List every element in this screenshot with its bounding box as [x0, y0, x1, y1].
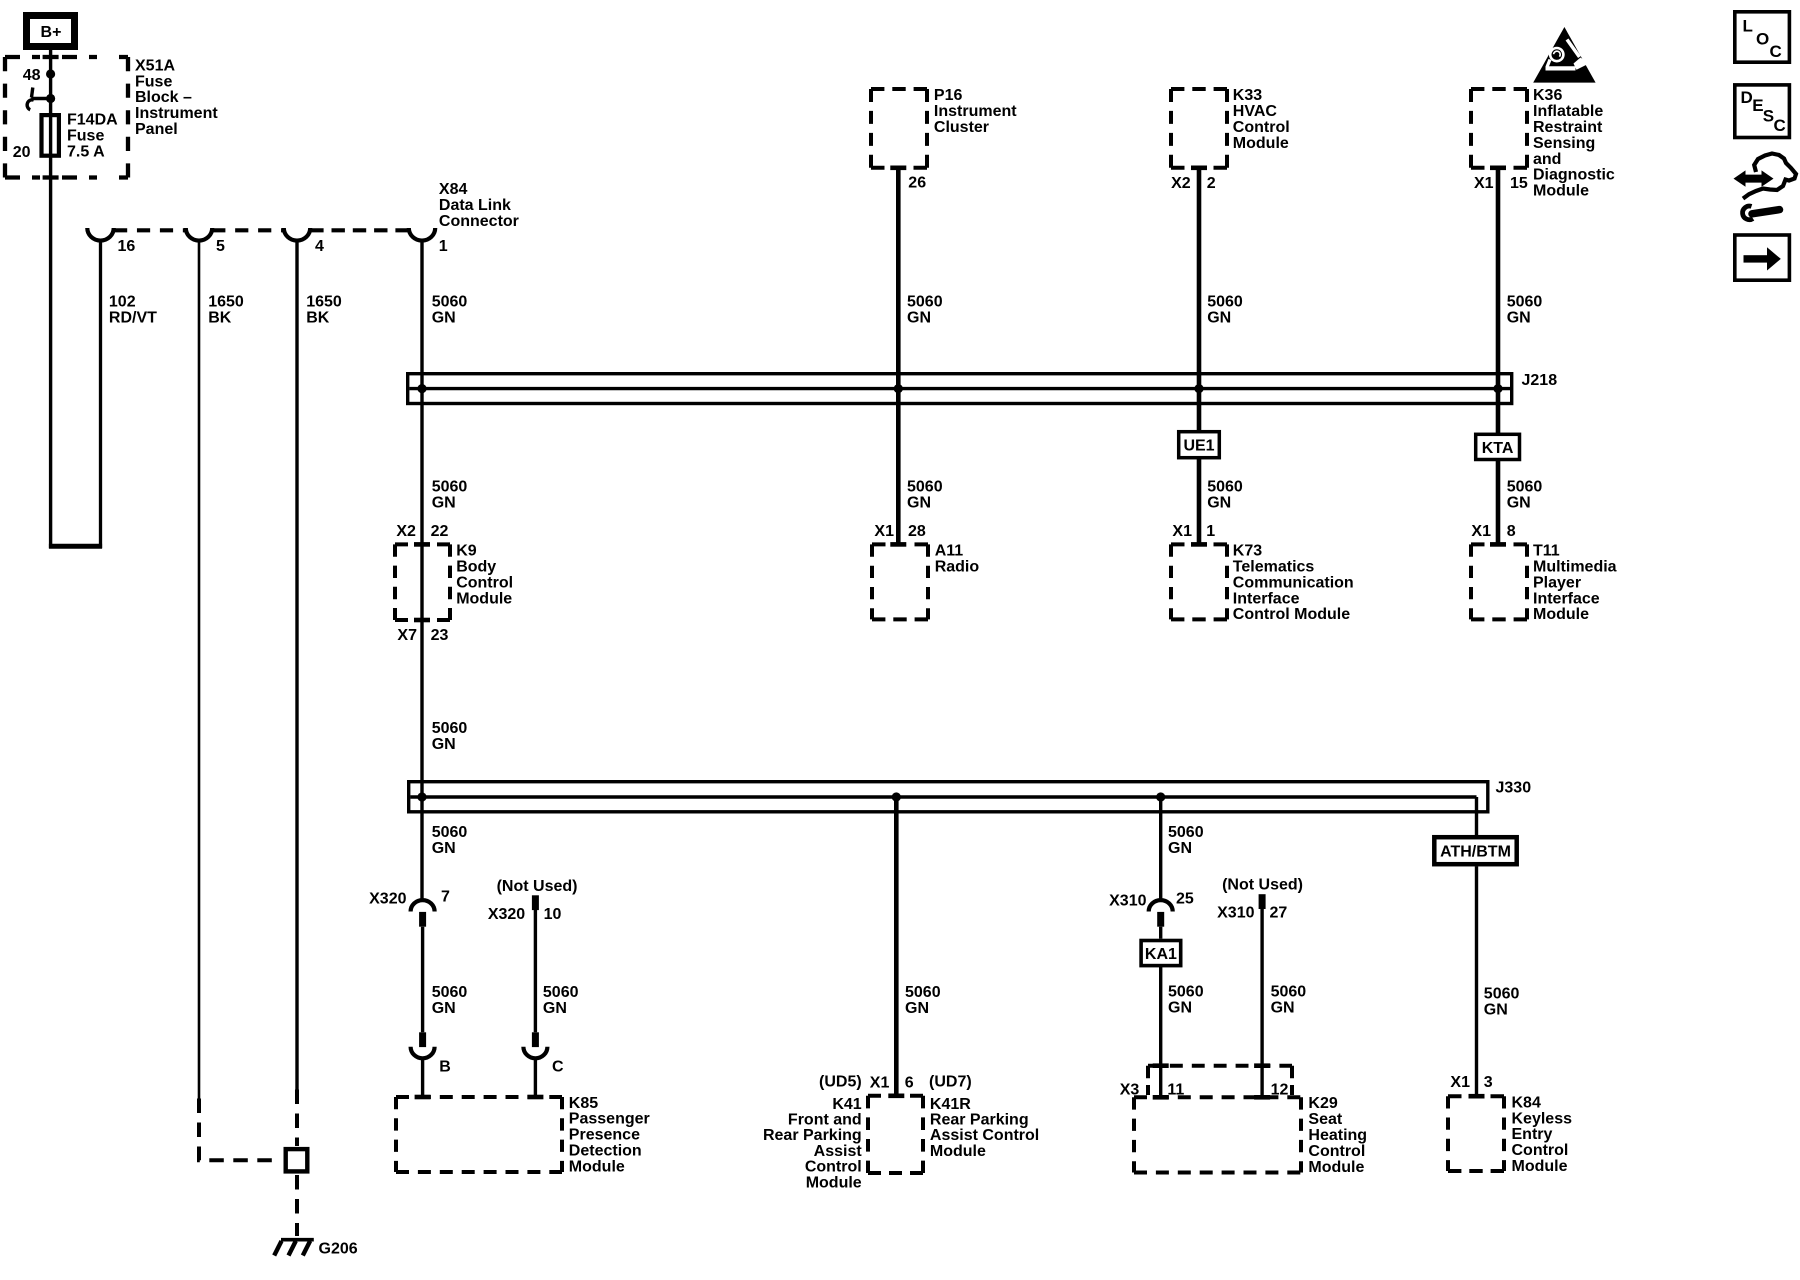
- K29 connector X3 dashed sub-box: [1148, 1066, 1292, 1095]
- wire label 5060 GN (above A11): [907, 479, 943, 512]
- svg-text:RD/VT: RD/VT: [109, 310, 157, 327]
- svg-text:5060: 5060: [1507, 294, 1543, 311]
- module K9 Body Control Module dashed box: [395, 544, 450, 620]
- node pin 48 junction: [46, 69, 55, 78]
- svg-text:15: 15: [1510, 175, 1528, 192]
- module K84 Keyless Entry Control Module dashed box: [1448, 1096, 1504, 1171]
- svg-text:C: C: [1770, 42, 1782, 61]
- switch element in fuse block: [27, 88, 50, 110]
- svg-text:48: 48: [23, 67, 41, 84]
- svg-text:GN: GN: [432, 494, 456, 511]
- svg-text:X51A: X51A: [135, 57, 175, 74]
- svg-text:Data Link: Data Link: [439, 197, 511, 214]
- module K85 Passenger Presence Detection Module dashed box: [396, 1097, 562, 1172]
- A11 label: [935, 543, 980, 576]
- wire label 5060 GN (K33 branch): [1207, 294, 1243, 327]
- svg-text:ATH/BTM: ATH/BTM: [1440, 844, 1511, 861]
- svg-text:UE1: UE1: [1183, 438, 1214, 455]
- svg-text:5060: 5060: [1168, 824, 1204, 841]
- svg-text:K84: K84: [1512, 1094, 1541, 1111]
- K41 left label Front and Rear Parking Assist Control Module: [763, 1096, 862, 1192]
- label box UE1: [1179, 432, 1220, 458]
- svg-text:P16: P16: [934, 87, 963, 104]
- svg-text:1: 1: [439, 238, 448, 255]
- X84 connector cavity pin 16: [87, 228, 113, 241]
- svg-text:Control: Control: [1233, 119, 1290, 136]
- wire label 5060 GN (above K73): [1207, 479, 1243, 512]
- A11 stub T-bar: [890, 542, 906, 547]
- svg-text:J218: J218: [1522, 372, 1558, 389]
- svg-text:5060: 5060: [1207, 294, 1243, 311]
- svg-text:Control: Control: [1512, 1142, 1569, 1159]
- K9 wire crossing tick top: [414, 542, 430, 547]
- wire through fuse: [49, 113, 52, 548]
- svg-text:Module: Module: [1233, 135, 1289, 152]
- svg-text:A11: A11: [935, 543, 964, 560]
- svg-text:Control Module: Control Module: [1233, 606, 1350, 623]
- svg-text:Panel: Panel: [135, 121, 178, 138]
- wire C to K85: [534, 1058, 537, 1098]
- svg-text:Module: Module: [1533, 183, 1589, 200]
- terminal C connector: [523, 1032, 547, 1058]
- wire J330 to X310 pin 25: [1159, 797, 1162, 901]
- svg-text:Multimedia: Multimedia: [1533, 559, 1617, 576]
- svg-text:Cluster: Cluster: [934, 119, 989, 136]
- svg-text:B+: B+: [41, 24, 62, 41]
- svg-text:Player: Player: [1533, 574, 1581, 591]
- wire label 1650 BK (pin 4): [306, 294, 342, 327]
- svg-text:X1: X1: [1471, 523, 1491, 540]
- svg-text:X1: X1: [1172, 523, 1192, 540]
- svg-text:X320: X320: [369, 891, 406, 908]
- svg-text:5060: 5060: [1271, 984, 1307, 1001]
- svg-text:X3: X3: [1120, 1082, 1140, 1099]
- svg-text:27: 27: [1270, 905, 1288, 922]
- svg-text:S: S: [1763, 107, 1774, 126]
- K9 label: [456, 543, 513, 608]
- svg-text:5060: 5060: [907, 294, 943, 311]
- svg-text:Control: Control: [805, 1159, 862, 1176]
- wire label 5060 GN (pin 27 branch): [1271, 984, 1307, 1017]
- svg-text:GN: GN: [1168, 1000, 1192, 1017]
- svg-text:Keyless: Keyless: [1512, 1110, 1573, 1127]
- svg-text:Instrument: Instrument: [934, 103, 1017, 120]
- svg-text:Communication: Communication: [1233, 574, 1354, 591]
- K41R right label Rear Parking Assist Control Module: [930, 1096, 1039, 1160]
- svg-text:GN: GN: [432, 1000, 456, 1017]
- svg-text:GN: GN: [1207, 310, 1231, 327]
- svg-text:16: 16: [118, 238, 136, 255]
- T11 stub T-bar: [1490, 542, 1506, 547]
- svg-text:Presence: Presence: [569, 1127, 640, 1144]
- junction on J218 at pin1 wire: [417, 384, 426, 393]
- svg-text:X2: X2: [396, 523, 416, 540]
- terminal X320 pin 10 pin tick: [532, 895, 539, 910]
- wire X320 pin 10 to C: [534, 910, 537, 1032]
- fuse block X51A dashed box: [5, 57, 128, 178]
- svg-text:Assist: Assist: [814, 1143, 863, 1160]
- wire K9 X7 to X320 pin 7: [420, 620, 423, 901]
- svg-text:and: and: [1533, 151, 1561, 168]
- svg-text:12: 12: [1271, 1082, 1289, 1099]
- svg-text:22: 22: [431, 523, 449, 540]
- module K73 Telematics dashed box: [1171, 544, 1227, 619]
- battery feed B+: [27, 16, 75, 47]
- label box ATH/BTM: [1434, 837, 1516, 864]
- svg-text:Module: Module: [1512, 1158, 1568, 1175]
- svg-text:Restraint: Restraint: [1533, 119, 1603, 136]
- svg-text:Sensing: Sensing: [1533, 135, 1595, 152]
- wire label 5060 GN (P16 branch): [907, 294, 943, 327]
- T11 label: [1533, 543, 1617, 624]
- module K41 Parking Assist dashed box: [868, 1096, 923, 1173]
- svg-text:X1: X1: [870, 1074, 890, 1091]
- svg-text:L: L: [1743, 16, 1753, 35]
- svg-text:BK: BK: [208, 310, 232, 327]
- junction on J218 at K36 wire: [1493, 384, 1502, 393]
- wire ATH/BTM to K84: [1475, 867, 1478, 1097]
- wire label 5060 GN (below J330 left): [432, 824, 468, 857]
- nav icon schematic reference arrows and wrench: [1734, 154, 1797, 220]
- splice pack J218 bus: [408, 374, 1512, 404]
- X84 connector cavity pin 1: [409, 228, 435, 241]
- tick at X3 sub-box top (pin 11 wire): [1153, 1063, 1169, 1068]
- wire X84 pin 5 to ground splice: [199, 240, 281, 1160]
- tick where B+ wire enters X51A: [43, 55, 59, 59]
- svg-text:GN: GN: [905, 1000, 929, 1017]
- terminal X310 pin 27 pin tick: [1259, 894, 1266, 909]
- svg-text:K41R: K41R: [930, 1096, 971, 1113]
- module K36 Inflatable Restraint Sensing and Diagnostic Module dashed box: [1471, 89, 1527, 168]
- module P16 Instrument Cluster dashed box: [871, 89, 927, 168]
- svg-text:Module: Module: [569, 1158, 625, 1175]
- svg-text:Rear Parking: Rear Parking: [763, 1127, 862, 1144]
- svg-text:2: 2: [1207, 175, 1216, 192]
- fuse F14DA 7.5 A: [42, 115, 59, 156]
- svg-text:Passenger: Passenger: [569, 1111, 650, 1128]
- K41 stub T-bar: [888, 1094, 904, 1099]
- wire X84 pin 1 to K9 module: [420, 240, 423, 620]
- svg-text:Heating: Heating: [1308, 1127, 1367, 1144]
- wire label 5060 GN (below KA1): [1168, 984, 1204, 1017]
- nav icon DESC box: [1735, 85, 1790, 138]
- K73 label: [1233, 543, 1354, 624]
- K9 wire crossing tick bottom: [414, 618, 430, 623]
- svg-text:5060: 5060: [543, 984, 579, 1001]
- wire label 5060 GN (K41 branch): [905, 984, 941, 1017]
- wire label 5060 GN (above T11): [1507, 479, 1543, 512]
- svg-text:102: 102: [109, 294, 136, 311]
- airbag warning triangle: [1533, 27, 1595, 83]
- svg-text:Rear Parking: Rear Parking: [930, 1112, 1029, 1129]
- svg-text:GN: GN: [432, 310, 456, 327]
- svg-text:25: 25: [1176, 891, 1194, 908]
- wire label 5060 GN (above X310-25): [1168, 824, 1204, 857]
- tick at X3 sub-box top (pin 12 wire): [1254, 1063, 1270, 1068]
- wire X310 pin 25 to KA1: [1159, 927, 1162, 939]
- svg-text:Module: Module: [456, 590, 512, 607]
- svg-text:GN: GN: [1507, 310, 1531, 327]
- svg-text:X310: X310: [1217, 905, 1254, 922]
- svg-text:Assist Control: Assist Control: [930, 1127, 1039, 1144]
- X84 connector cavity pin 5: [186, 228, 212, 241]
- wire label 5060 GN (above B): [432, 984, 468, 1017]
- K85 entry T-bar at B wire: [415, 1095, 431, 1100]
- wire KA1 to K29: [1159, 966, 1162, 1098]
- svg-text:X1: X1: [1450, 1074, 1470, 1091]
- K33 label: [1233, 87, 1290, 152]
- K29 label: [1308, 1095, 1367, 1176]
- svg-text:B: B: [439, 1059, 451, 1076]
- K36 stub T-bar: [1490, 166, 1506, 171]
- K84 label: [1512, 1094, 1573, 1175]
- svg-text:1650: 1650: [208, 294, 244, 311]
- svg-text:26: 26: [908, 175, 926, 192]
- svg-text:T11: T11: [1533, 543, 1560, 560]
- svg-text:Diagnostic: Diagnostic: [1533, 167, 1615, 184]
- svg-text:5060: 5060: [432, 824, 468, 841]
- wire B to K85: [421, 1058, 424, 1098]
- ground splice box: [286, 1149, 308, 1171]
- svg-text:Detection: Detection: [569, 1143, 642, 1160]
- fuse value label F14DA Fuse 7.5 A: [67, 112, 118, 161]
- svg-text:10: 10: [544, 906, 562, 923]
- svg-text:5060: 5060: [432, 294, 468, 311]
- svg-text:20: 20: [13, 144, 31, 161]
- K29 entry T-bar pin 12: [1254, 1095, 1270, 1100]
- splice pack J330 bus: [409, 782, 1488, 812]
- svg-text:GN: GN: [432, 736, 456, 753]
- svg-text:BK: BK: [306, 310, 330, 327]
- svg-text:K36: K36: [1533, 87, 1562, 104]
- svg-text:Connector: Connector: [439, 213, 519, 230]
- X84 data link connector dashed line: [114, 228, 409, 232]
- X51A label Fuse Block Instrument Panel: [135, 57, 218, 138]
- svg-text:Inflatable: Inflatable: [1533, 103, 1603, 120]
- svg-text:F14DA: F14DA: [67, 112, 118, 129]
- svg-text:Module: Module: [930, 1143, 986, 1160]
- svg-text:KA1: KA1: [1145, 946, 1177, 963]
- wire X310 pin 27 to K29: [1260, 909, 1263, 1097]
- svg-text:C: C: [552, 1059, 564, 1076]
- svg-text:KTA: KTA: [1482, 440, 1514, 457]
- svg-text:Telematics: Telematics: [1233, 559, 1315, 576]
- svg-text:GN: GN: [1168, 840, 1192, 857]
- svg-text:Instrument: Instrument: [135, 105, 218, 122]
- svg-text:Seat: Seat: [1308, 1111, 1342, 1128]
- svg-text:6: 6: [905, 1074, 914, 1091]
- wire L-join from fuse output to X84 pin 16: [49, 544, 102, 549]
- svg-text:GN: GN: [1271, 1000, 1295, 1017]
- label box KTA: [1476, 434, 1520, 459]
- junction on J330 at main wire: [417, 792, 426, 801]
- nav icon forward arrow box: [1735, 235, 1790, 280]
- wire label 5060 GN (K36 branch): [1507, 294, 1543, 327]
- svg-text:X1: X1: [1474, 175, 1494, 192]
- junction on J218 at P16 wire: [894, 384, 903, 393]
- svg-text:Module: Module: [1308, 1159, 1364, 1176]
- module A11 Radio dashed box: [872, 544, 928, 619]
- svg-text:O: O: [1756, 29, 1769, 48]
- svg-text:3: 3: [1484, 1074, 1493, 1091]
- wire J330 midline to ATH/BTM: [1475, 797, 1478, 836]
- svg-text:(UD5): (UD5): [819, 1073, 862, 1090]
- P16 label: [934, 87, 1017, 136]
- svg-text:GN: GN: [432, 840, 456, 857]
- svg-text:5060: 5060: [907, 479, 943, 496]
- wire label 5060 GN (below K9): [432, 720, 468, 753]
- wire label 5060 GN (X84 pin 1): [432, 294, 468, 327]
- svg-text:Interface: Interface: [1533, 590, 1600, 607]
- wire X320 pin 7 to B: [421, 927, 424, 1033]
- label box KA1: [1141, 941, 1181, 966]
- wire label 1650 BK (pin 5): [208, 294, 244, 327]
- svg-text:K85: K85: [569, 1095, 598, 1112]
- nav icon LOC box: [1735, 12, 1790, 62]
- X84 Data Link Connector label: [439, 181, 519, 230]
- wire label 102 RD/VT: [109, 294, 157, 327]
- junction on J330 at K41 wire: [892, 792, 901, 801]
- svg-text:K29: K29: [1308, 1095, 1337, 1112]
- wire label 5060 GN (above C): [543, 984, 579, 1017]
- K33 stub T-bar: [1191, 166, 1207, 171]
- ground G206: [274, 1240, 314, 1256]
- svg-text:GN: GN: [1507, 494, 1531, 511]
- svg-text:5060: 5060: [1168, 984, 1204, 1001]
- svg-text:5060: 5060: [432, 720, 468, 737]
- junction on J330 at K29 wire: [1156, 792, 1165, 801]
- svg-text:Front and: Front and: [788, 1112, 862, 1129]
- wire J330 to K41: [894, 797, 899, 1096]
- svg-text:8: 8: [1507, 523, 1516, 540]
- svg-text:(UD7): (UD7): [929, 1073, 972, 1090]
- svg-text:GN: GN: [907, 494, 931, 511]
- inline connector X320 pin 7: [411, 900, 435, 927]
- svg-text:X2: X2: [1171, 175, 1191, 192]
- svg-text:5060: 5060: [1507, 479, 1543, 496]
- svg-text:Control: Control: [1308, 1143, 1365, 1160]
- svg-text:X7: X7: [397, 627, 417, 644]
- wire from B+ to fuse F14DA: [49, 49, 52, 113]
- svg-text:HVAC: HVAC: [1233, 103, 1278, 120]
- svg-text:Module: Module: [806, 1174, 862, 1191]
- inline connector X310 pin 25: [1149, 900, 1173, 927]
- svg-text:Control: Control: [456, 574, 513, 591]
- svg-text:C: C: [1774, 116, 1786, 135]
- svg-text:GN: GN: [1484, 1001, 1508, 1018]
- svg-text:Radio: Radio: [935, 559, 980, 576]
- svg-text:28: 28: [908, 523, 926, 540]
- module K29 Seat Heating Control Module dashed box: [1134, 1097, 1301, 1172]
- svg-text:Block –: Block –: [135, 89, 192, 106]
- svg-text:Fuse: Fuse: [67, 127, 104, 144]
- svg-text:J330: J330: [1496, 780, 1532, 797]
- svg-text:X84: X84: [439, 181, 468, 198]
- svg-text:5060: 5060: [432, 479, 468, 496]
- svg-text:5060: 5060: [1484, 985, 1520, 1002]
- svg-text:X310: X310: [1109, 893, 1146, 910]
- svg-text:GN: GN: [543, 1000, 567, 1017]
- svg-text:5: 5: [216, 238, 225, 255]
- svg-text:Fuse: Fuse: [135, 73, 172, 90]
- svg-text:Body: Body: [456, 559, 496, 576]
- svg-text:D: D: [1741, 88, 1753, 107]
- svg-text:Entry: Entry: [1512, 1126, 1553, 1143]
- svg-text:5060: 5060: [432, 984, 468, 1001]
- terminal B connector: [411, 1032, 435, 1058]
- svg-text:11: 11: [1167, 1082, 1184, 1099]
- module T11 Multimedia Player Interface Module dashed box: [1471, 544, 1527, 619]
- K85 entry T-bar at C wire: [527, 1095, 543, 1100]
- dashed wire splice box to ground: [295, 1175, 299, 1236]
- K84 stub T-bar: [1469, 1094, 1485, 1099]
- svg-text:X320: X320: [488, 906, 525, 923]
- svg-text:GN: GN: [1207, 494, 1231, 511]
- svg-text:(Not Used): (Not Used): [1222, 877, 1303, 894]
- svg-text:GN: GN: [907, 310, 931, 327]
- svg-text:X1: X1: [874, 523, 894, 540]
- wire X84 pin 4 to ground splice: [295, 240, 298, 1146]
- junction on J218 at K33 wire: [1194, 384, 1203, 393]
- module K33 HVAC Control Module dashed box: [1171, 89, 1227, 168]
- svg-text:1: 1: [1206, 523, 1215, 540]
- svg-text:Module: Module: [1533, 606, 1589, 623]
- wire P16 to A11: [896, 168, 901, 545]
- K73 stub T-bar: [1191, 542, 1207, 547]
- K36 label: [1533, 87, 1615, 199]
- svg-text:1650: 1650: [306, 294, 342, 311]
- tick where wire exits X51A: [43, 175, 59, 179]
- wire label 5060 GN (above K84): [1484, 985, 1520, 1018]
- svg-text:23: 23: [431, 627, 449, 644]
- svg-text:K73: K73: [1233, 543, 1262, 560]
- wire K33 to K73: [1197, 168, 1202, 545]
- K29 entry T-bar pin 11: [1153, 1095, 1169, 1100]
- svg-text:(Not Used): (Not Used): [497, 878, 578, 895]
- svg-text:G206: G206: [319, 1241, 358, 1258]
- node switch junction: [46, 94, 55, 103]
- svg-text:Interface: Interface: [1233, 590, 1300, 607]
- svg-text:7: 7: [441, 889, 450, 906]
- svg-text:K9: K9: [456, 543, 477, 560]
- svg-text:K41: K41: [832, 1096, 861, 1113]
- svg-text:7.5 A: 7.5 A: [67, 143, 105, 160]
- P16 stub T-bar: [890, 166, 906, 171]
- X84 connector cavity pin 4: [284, 228, 310, 241]
- svg-text:4: 4: [315, 238, 324, 255]
- K85 label: [569, 1095, 650, 1176]
- wire K36 to T11: [1496, 168, 1501, 545]
- wire label 5060 GN (above K9): [432, 479, 468, 512]
- svg-text:5060: 5060: [905, 984, 941, 1001]
- svg-text:K33: K33: [1233, 87, 1262, 104]
- svg-text:5060: 5060: [1207, 479, 1243, 496]
